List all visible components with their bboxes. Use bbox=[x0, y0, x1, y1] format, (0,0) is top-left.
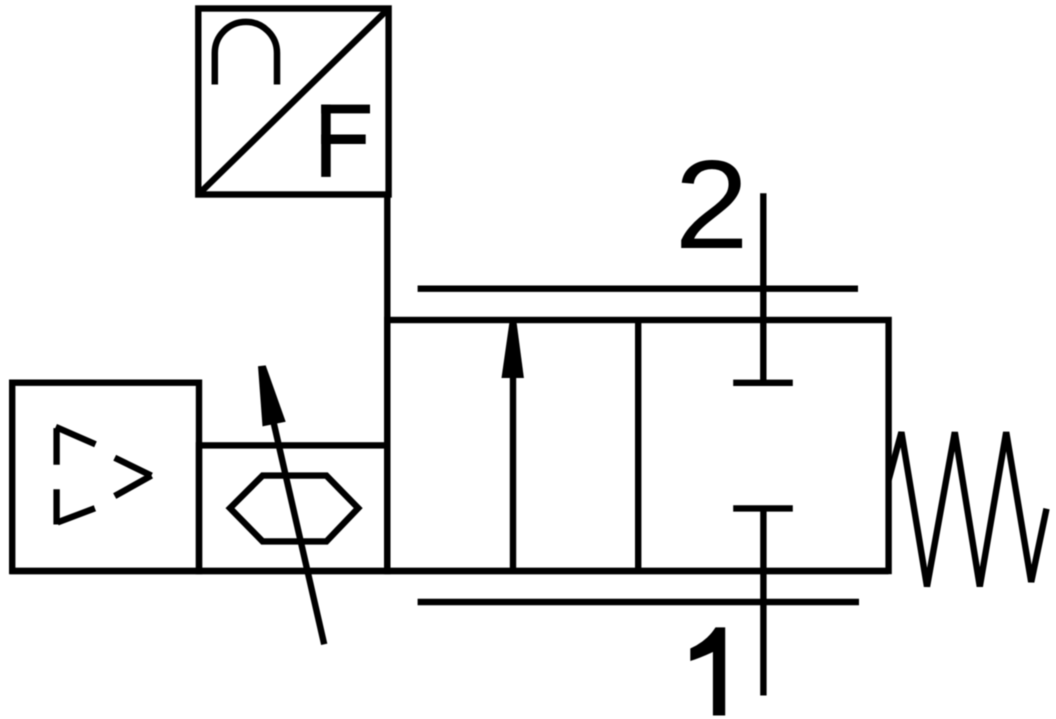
svg-text:2: 2 bbox=[675, 133, 749, 275]
